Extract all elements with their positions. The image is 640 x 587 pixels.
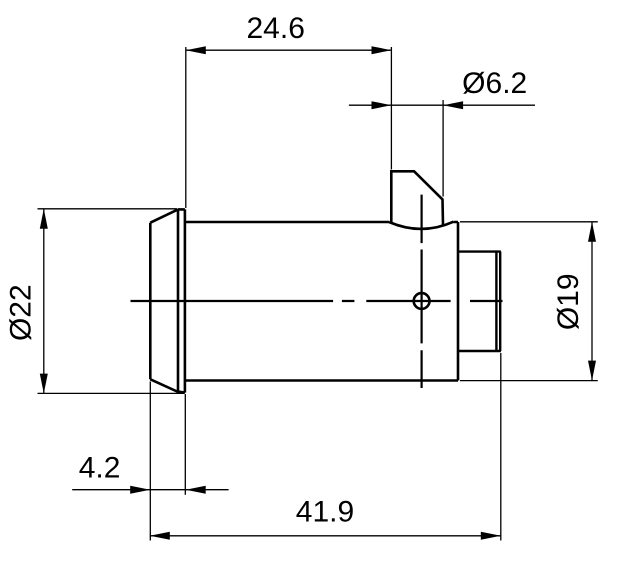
dimension 4.2 line <box>72 489 228 491</box>
small end cylinder (spigot) <box>458 252 501 351</box>
dimension Ø6.2 line <box>349 104 535 106</box>
main cylinder body (Ø19) <box>185 222 458 381</box>
dimension 24.6 extension line right <box>390 47 392 170</box>
dimension 4.2 extension line left <box>149 382 151 541</box>
dimension Ø22 extension line bottom <box>38 392 185 394</box>
svg-text:41.9: 41.9 <box>296 496 354 529</box>
dimension 41.9 arrow left <box>150 532 170 540</box>
dimension Ø19 arrow top <box>588 222 596 242</box>
dimension 24.6 arrow left <box>186 46 206 54</box>
dimension Ø19 arrow bottom <box>588 361 596 381</box>
hole center mark circle <box>414 293 430 309</box>
dimension 41.9 extension line right <box>500 353 502 541</box>
flange (left collar, Ø22) <box>150 209 185 392</box>
dimension Ø22 arrow bottom <box>40 374 48 394</box>
dimension Ø19 line <box>591 222 593 381</box>
dimension Ø19 extension line bottom <box>460 380 598 382</box>
dimension 24.6 line <box>186 49 392 51</box>
horizontal axis centerline <box>131 300 503 302</box>
svg-text:Ø6.2: Ø6.2 <box>462 67 527 100</box>
dimension Ø19 extension line top <box>460 221 598 223</box>
dimension 41.9 line <box>150 535 501 537</box>
dimension 24.6 arrow right <box>372 46 392 54</box>
dimension Ø22 line <box>43 209 45 394</box>
dimension 4.2 arrow right <box>186 486 206 494</box>
svg-text:4.2: 4.2 <box>79 452 121 485</box>
dimension Ø6.2 arrow right <box>443 101 463 109</box>
dimension 24.6 extension line left <box>185 47 187 208</box>
svg-text:Ø19: Ø19 <box>552 273 585 330</box>
dimension 41.9 arrow right <box>481 532 501 540</box>
dimension 4.2 arrow left <box>130 486 150 494</box>
dimension Ø22 extension line top <box>38 208 178 210</box>
dimension Ø22 arrow top <box>40 209 48 229</box>
vertical hole centerline <box>421 195 423 388</box>
svg-text:24.6: 24.6 <box>247 12 305 45</box>
dimension Ø6.2 extension line right <box>442 100 444 197</box>
boss tab on top (Ø6.2 pin boss) <box>389 171 454 229</box>
dimension Ø6.2 arrow left <box>372 101 392 109</box>
dimension 4.2 extension line right <box>184 394 186 495</box>
svg-text:Ø22: Ø22 <box>5 284 38 341</box>
